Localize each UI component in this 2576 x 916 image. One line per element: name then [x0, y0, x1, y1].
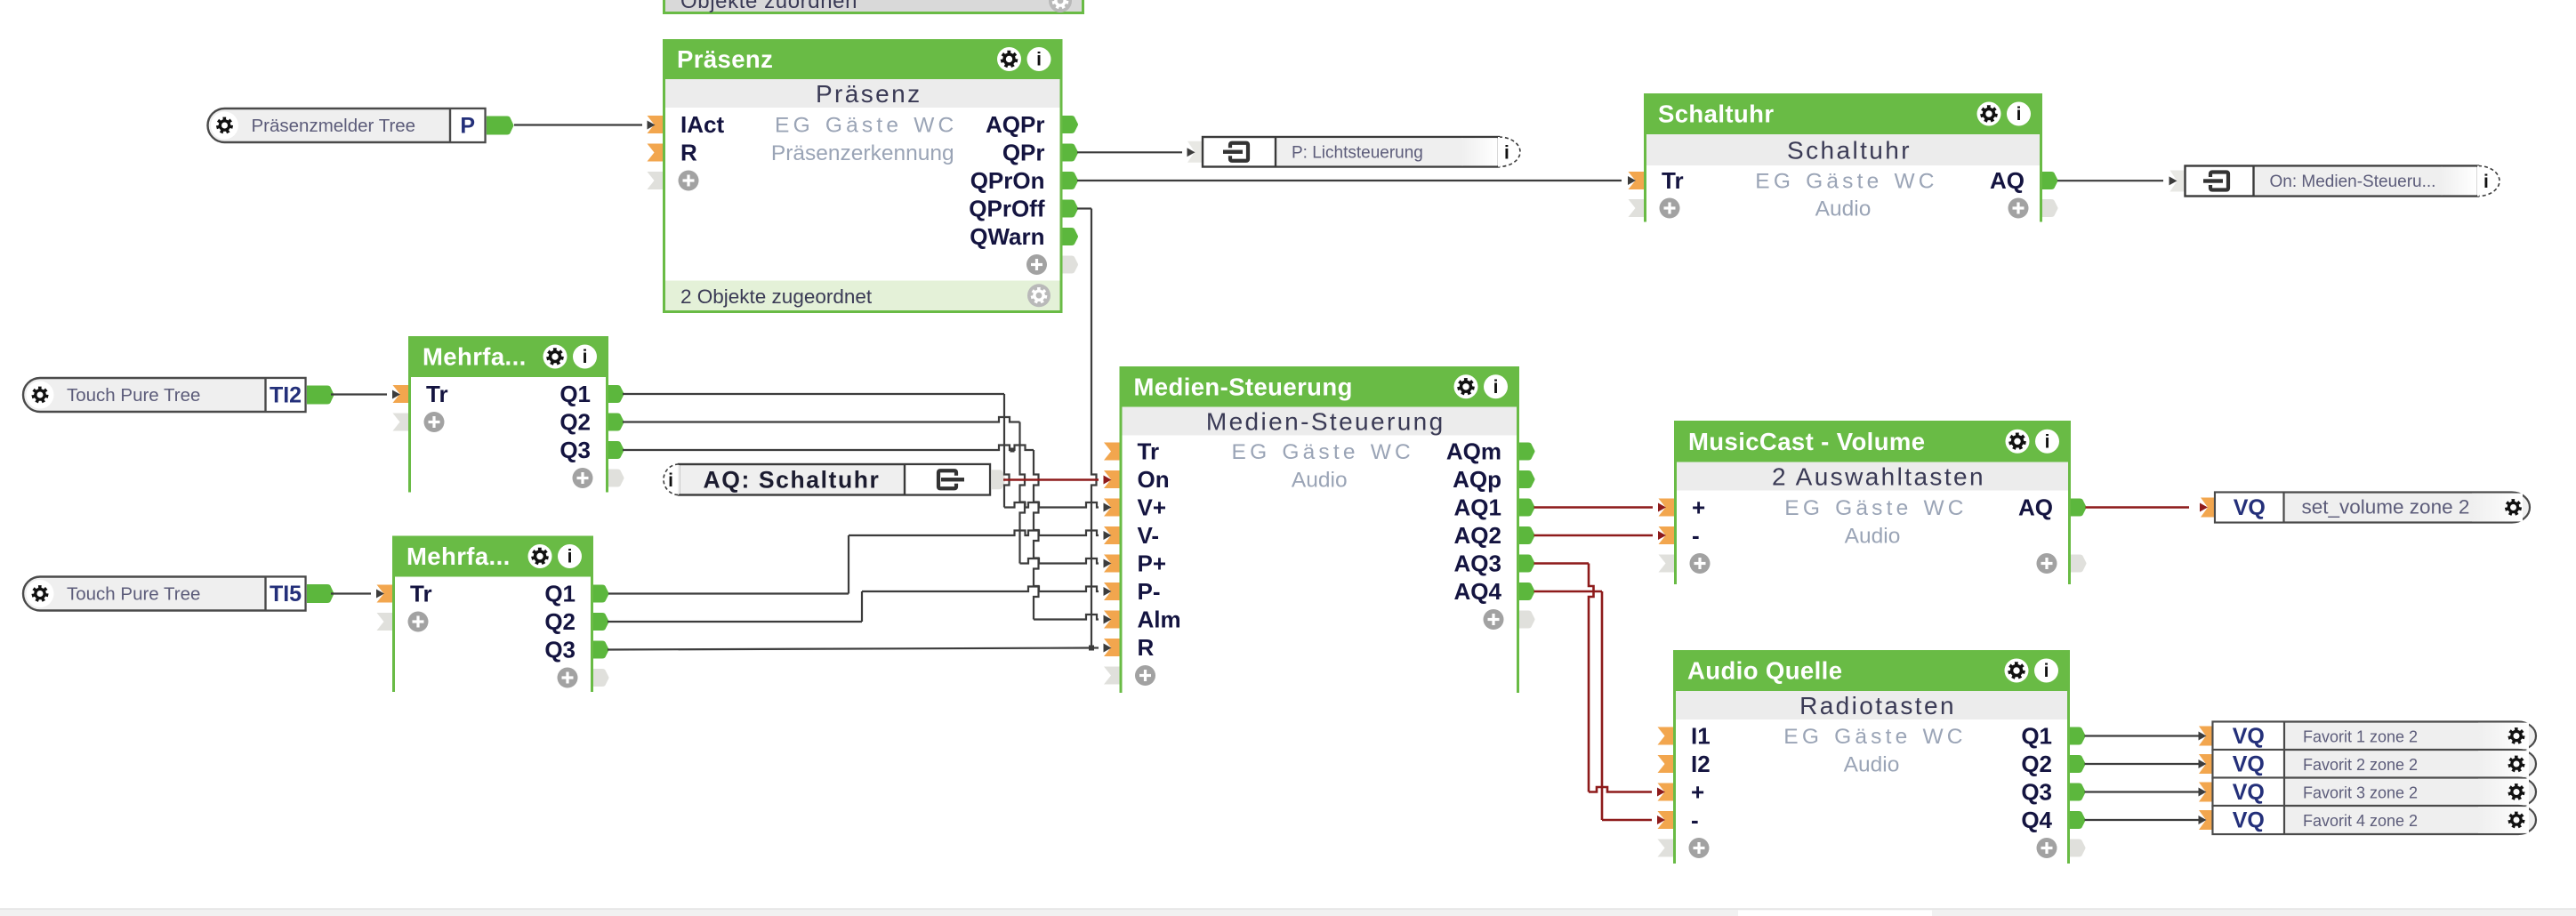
svg-text:Schaltuhr: Schaltuhr [1787, 137, 1912, 165]
svg-text:Präsenzerkennung: Präsenzerkennung [771, 141, 954, 165]
svg-text:Q2: Q2 [2021, 751, 2052, 777]
svg-text:VQ: VQ [2233, 724, 2265, 749]
wire Mehrfachklick1 Q2 to Medien-Steuerung P+ [623, 417, 1020, 422]
function block Präsenz: subtitle strip [665, 79, 1060, 108]
svg-text:i: i [568, 547, 573, 567]
Audio Quelle output Q3 [2070, 783, 2086, 801]
VQ output set_volume zone 2: input nub [2201, 498, 2217, 518]
svg-text:Medien-Steuerung: Medien-Steuerung [1206, 408, 1445, 436]
function block Audio Quelle: body [1676, 719, 2067, 864]
svg-text:Q1: Q1 [2021, 723, 2052, 750]
red wire MusicCast AQ to VQ set_volume [2086, 506, 2190, 509]
Schaltuhr output AQ [2042, 172, 2058, 189]
wire Mehrfachklick1 Q3 to Medien-Steuerung Alm [623, 446, 1034, 451]
svg-text:Tr: Tr [1138, 438, 1160, 465]
MusicCast add-input nub [1659, 555, 1675, 573]
svg-text:AQ3: AQ3 [1454, 550, 1501, 577]
svg-text:R: R [680, 140, 697, 166]
svg-text:EG Gäste WC: EG Gäste WC [1784, 496, 1967, 520]
svg-text:Q2: Q2 [544, 608, 576, 635]
svg-text:AQ4: AQ4 [1454, 578, 1502, 605]
wire Präsenzmelder P to Präsenz IAct [514, 124, 642, 125]
svg-text:On: Medien-Steueru...: On: Medien-Steueru... [2270, 173, 2436, 191]
Medien-Steuerung input Tr [1104, 443, 1120, 461]
Audio Quelle input + [1658, 783, 1674, 801]
wire Touch Pure TI5 to Mehrfachklick2 Tr [331, 592, 371, 594]
svg-text:V+: V+ [1138, 494, 1167, 521]
Mehrfachklick1 add-output nub [608, 470, 624, 487]
svg-text:VQ: VQ [2233, 780, 2265, 805]
Präsenz output QPr [1063, 144, 1079, 162]
memory flag On: Medien-Steuerung: body [2186, 166, 2479, 197]
svg-text:-: - [1691, 807, 1699, 833]
svg-text:Medien-Steuerung: Medien-Steuerung [1134, 373, 1353, 400]
red wire memory flag AQ: Schaltuhr to Medien-Steuerung On [1003, 478, 1099, 481]
wire Mehrfachklick2 Q1 to Medien-Steuerung V- [608, 592, 849, 594]
VQ output Favorit 1 zone 2: input nub [2199, 727, 2215, 746]
svg-text:VQ: VQ [2234, 495, 2266, 520]
function block Medien-Steuerung: header gear and info icons [1454, 374, 1478, 398]
svg-text:set_volume zone 2: set_volume zone 2 [2302, 496, 2470, 518]
function block Medien-Steuerung: frame [1120, 366, 1520, 693]
bottom scrollbar band [0, 909, 2576, 916]
svg-text:Radiotasten: Radiotasten [1799, 692, 1956, 719]
svg-text:Schaltuhr: Schaltuhr [1658, 100, 1774, 128]
svg-text:R: R [1138, 634, 1155, 661]
Audio Quelle input I2 [1658, 755, 1674, 773]
wire Audio Quelle Q3 to VQ Favorit 3 [2085, 791, 2201, 792]
tree input Präsenzmelder Tree P: gear icon [211, 112, 238, 140]
svg-text:Touch Pure Tree: Touch Pure Tree [67, 385, 200, 406]
function block Schaltuhr: body [1646, 165, 2040, 222]
Mehrfachklick1 output Q3 [608, 441, 624, 459]
Audio Quelle input I1 [1658, 727, 1674, 745]
svg-text:QPrOn: QPrOn [970, 167, 1045, 194]
svg-text:i: i [1493, 377, 1499, 398]
tree input Touch Pure Tree TI5: gear icon [27, 580, 54, 607]
function block Mehrfachklick 1: header gear and info icons [543, 345, 568, 369]
Audio Quelle add-input nub [1658, 840, 1674, 857]
VQ output Favorit 2 zone 2: body [2213, 750, 2537, 778]
memory flag P: Lichtsteuerung: memory icon [1230, 143, 1248, 161]
MusicCast input plus [1659, 499, 1675, 517]
svg-text:Tr: Tr [1662, 167, 1684, 194]
wire Audio Quelle Q2 to VQ Favorit 2 [2085, 763, 2201, 765]
memory flag On: Medien-Steuerung: input nub [2170, 171, 2186, 192]
VQ output Favorit 4 zone 2: input nub [2199, 810, 2215, 830]
VQ output Favorit 2 zone 2: gear icon [2508, 756, 2524, 773]
junction dot on Mehrfachklick1 Q3 wire [1010, 448, 1015, 453]
tree input Präsenzmelder Tree P: output nub [487, 117, 514, 135]
Audio Quelle input - [1658, 811, 1674, 829]
svg-text:Audio: Audio [1845, 525, 1901, 549]
svg-text:Tr: Tr [426, 381, 448, 407]
svg-text:Präsenz: Präsenz [677, 45, 773, 73]
VQ output Favorit 3 zone 2: body [2213, 778, 2537, 807]
Medien-Steuerung output AQ2 [1519, 526, 1535, 544]
Mehrfachklick2 add-input nub [377, 613, 393, 631]
svg-text:-: - [1692, 522, 1700, 549]
Medien-Steuerung input V- [1104, 526, 1120, 544]
svg-text:TI5: TI5 [270, 582, 302, 607]
function block MusicCast - Volume: body [1677, 491, 2068, 585]
red wire Medien-Steuerung AQ3 to Audio Quelle plus [1534, 562, 1590, 565]
svg-text:MusicCast - Volume: MusicCast - Volume [1688, 428, 1925, 455]
Präsenz input IAct [648, 116, 664, 133]
svg-text:I1: I1 [1691, 723, 1711, 750]
MusicCast input minus [1659, 526, 1675, 544]
Mehrfachklick2 output Q3 [593, 641, 609, 659]
svg-text:Q3: Q3 [2021, 779, 2052, 806]
function block Präsenz: frame [663, 39, 1063, 313]
tree input Touch Pure Tree TI2: gear icon [27, 382, 54, 409]
function block MusicCast - Volume: header gear and info icons [2006, 430, 2030, 454]
VQ output Favorit 3 zone 2: input nub [2199, 783, 2215, 802]
tree input Touch Pure Tree TI5: output nub [307, 584, 334, 603]
VQ output Favorit 2 zone 2: input nub [2199, 754, 2215, 774]
Schaltuhr input Tr [1629, 172, 1645, 189]
svg-text:VQ: VQ [2233, 808, 2265, 833]
svg-text:AQ2: AQ2 [1454, 522, 1501, 549]
wire Präsenz QPr to memory flag P: Lichtsteuerung [1077, 151, 1182, 153]
function block Mehrfachklick 2: body [395, 577, 591, 693]
Präsenz output QWarn [1063, 228, 1079, 245]
Mehrfachklick2 add-output nub [593, 669, 609, 687]
svg-text:Q3: Q3 [544, 637, 576, 663]
Mehrfachklick1 output Q2 [608, 414, 624, 431]
red wire Medien-Steuerung AQ1 to MusicCast plus [1534, 506, 1654, 509]
svg-text:i: i [2483, 172, 2489, 192]
svg-text:Mehrfa...: Mehrfa... [423, 343, 527, 371]
svg-text:Mehrfa...: Mehrfa... [407, 542, 511, 570]
svg-text:V-: V- [1138, 522, 1160, 549]
memory flag AQ: Schaltuhr: body [679, 464, 990, 495]
Mehrfachklick1 add-input nub [393, 414, 409, 431]
wire Mehrfachklick2 Q2 to Medien-Steuerung P- [608, 621, 862, 623]
Medien-Steuerung input P+ [1104, 555, 1120, 573]
function block Audio Quelle: header gear and info icons [2005, 659, 2029, 683]
Präsenz input R [648, 144, 664, 162]
Medien-Steuerung output AQ3 [1519, 555, 1535, 573]
Audio Quelle output Q2 [2070, 755, 2086, 773]
VQ output Favorit 1 zone 2: gear icon [2508, 727, 2524, 744]
svg-text:AQ1: AQ1 [1454, 494, 1501, 521]
memory flag AQ: Schaltuhr: output nub [991, 470, 1006, 489]
MusicCast add-output nub [2071, 555, 2087, 573]
svg-text:Objekte zuordnen: Objekte zuordnen [680, 0, 857, 13]
function block Medien-Steuerung: subtitle strip [1123, 407, 1517, 436]
function block Mehrfachklick 2: header gear and info icons [528, 544, 552, 568]
svg-text:Favorit 2 zone 2: Favorit 2 zone 2 [2303, 756, 2418, 774]
Schaltuhr add-input nub [1629, 199, 1645, 217]
function block Präsenz: header gear and info icons [997, 47, 1021, 71]
svg-text:EG Gäste WC: EG Gäste WC [1783, 725, 1966, 749]
memory flag On: Medien-Steuerung: memory icon [2210, 173, 2228, 190]
Medien-Steuerung input R [1104, 639, 1120, 656]
svg-text:Präsenzmelder Tree: Präsenzmelder Tree [252, 116, 416, 136]
tree input Touch Pure Tree TI5: body [23, 577, 306, 611]
Präsenz output AQPr [1063, 116, 1079, 133]
svg-text:+: + [1692, 494, 1705, 521]
Präsenz output QPrOff [1063, 200, 1079, 218]
function block Medien-Steuerung: body [1123, 436, 1517, 694]
wire Schaltuhr AQ to memory flag On: Medien-Steuerung [2057, 180, 2163, 181]
tree input Touch Pure Tree TI2: body [23, 378, 306, 412]
svg-text:TI2: TI2 [270, 383, 302, 408]
wire Touch Pure TI2 to Mehrfachklick1 Tr [331, 393, 387, 395]
svg-text:Q3: Q3 [559, 437, 591, 463]
VQ output set_volume zone 2: body [2215, 493, 2530, 523]
svg-text:Q4: Q4 [2021, 807, 2052, 833]
Mehrfachklick1 input Tr [393, 385, 409, 403]
svg-text:Audio: Audio [1844, 753, 1900, 777]
wire Audio Quelle Q4 to VQ Favorit 4 [2085, 819, 2201, 821]
svg-text:P+: P+ [1138, 550, 1167, 577]
svg-text:P-: P- [1138, 578, 1161, 605]
memory flag P: Lichtsteuerung: body [1203, 137, 1499, 167]
function block Audio Quelle: subtitle strip [1676, 691, 2067, 719]
svg-text:i: i [1504, 142, 1509, 163]
svg-text:AQ: Schaltuhr: AQ: Schaltuhr [704, 466, 881, 493]
function block MusicCast - Volume: subtitle strip [1677, 462, 2068, 491]
Schaltuhr add-output nub [2042, 199, 2058, 217]
Medien-Steuerung output AQ1 [1519, 499, 1535, 517]
svg-text:Favorit 3 zone 2: Favorit 3 zone 2 [2303, 784, 2418, 802]
function block Präsenz: body [665, 108, 1060, 281]
svg-text:EG Gäste WC: EG Gäste WC [775, 114, 957, 138]
VQ output set_volume zone 2: gear icon [2505, 499, 2522, 516]
memory flag AQ: Schaltuhr: memory icon [938, 470, 956, 488]
svg-text:Tr: Tr [410, 581, 432, 607]
svg-text:i: i [2044, 661, 2049, 681]
wire Mehrfachklick1 Q1 to Medien-Steuerung V+ [623, 393, 1004, 395]
svg-text:QPrOff: QPrOff [969, 196, 1045, 222]
svg-text:I2: I2 [1691, 751, 1711, 777]
svg-text:Favorit 1 zone 2: Favorit 1 zone 2 [2303, 728, 2418, 746]
Medien-Steuerung input P- [1104, 583, 1120, 600]
wire Audio Quelle Q1 to VQ Favorit 1 [2085, 735, 2201, 736]
svg-text:AQ: AQ [1990, 167, 2025, 194]
svg-text:2 Auswahltasten: 2 Auswahltasten [1772, 463, 1985, 491]
memory flag P: Lichtsteuerung: input nub [1187, 141, 1203, 163]
svg-text:QWarn: QWarn [970, 223, 1044, 250]
VQ output Favorit 4 zone 2: body [2213, 806, 2537, 834]
svg-text:Q2: Q2 [559, 409, 591, 436]
function block Schaltuhr: frame [1644, 93, 2042, 222]
wire Präsenz QPrOn to Schaltuhr Tr [1077, 180, 1622, 181]
function block Audio Quelle: frame [1673, 650, 2070, 864]
svg-text:i: i [1036, 50, 1042, 70]
function block Mehrfachklick 2: frame [392, 536, 593, 693]
svg-text:VQ: VQ [2233, 752, 2265, 777]
Medien-Steuerung input Alm [1104, 611, 1120, 629]
function block Präsenz: footer strip [665, 281, 1060, 311]
svg-text:AQPr: AQPr [986, 111, 1044, 138]
Medien-Steuerung add-input nub [1104, 667, 1120, 685]
svg-text:Favorit 4 zone 2: Favorit 4 zone 2 [2303, 812, 2418, 830]
Präsenz output QPrOn [1063, 172, 1079, 189]
svg-text:Präsenz: Präsenz [816, 80, 922, 108]
Mehrfachklick2 input Tr [377, 585, 393, 603]
function block Mehrfachklick 1: body [411, 377, 606, 493]
scrollbar thumb [1738, 911, 1932, 916]
MusicCast output AQ [2071, 499, 2087, 517]
Medien-Steuerung input On [1104, 470, 1120, 488]
svg-text:IAct: IAct [680, 111, 724, 138]
svg-text:Touch Pure Tree: Touch Pure Tree [67, 584, 200, 605]
svg-text:Q1: Q1 [544, 581, 576, 607]
svg-text:QPr: QPr [1002, 140, 1045, 166]
svg-text:i: i [583, 347, 588, 367]
svg-text:Audio Quelle: Audio Quelle [1687, 657, 1842, 685]
VQ output Favorit 1 zone 2: body [2213, 722, 2537, 751]
function block MusicCast - Volume: frame [1674, 421, 2071, 584]
VQ output Favorit 4 zone 2: gear icon [2508, 812, 2524, 829]
partial block top: Objekte zuordnen footer strip [663, 0, 1084, 14]
svg-text:EG Gäste WC: EG Gäste WC [1755, 170, 1937, 194]
Mehrfachklick1 output Q1 [608, 385, 624, 403]
Medien-Steuerung add-output nub [1519, 611, 1535, 629]
svg-text:P: Lichtsteuerung: P: Lichtsteuerung [1292, 143, 1423, 162]
svg-text:Audio: Audio [1292, 469, 1348, 493]
svg-text:Q1: Q1 [559, 381, 591, 407]
function block Mehrfachklick 1: frame [408, 336, 608, 493]
svg-text:EG Gäste WC: EG Gäste WC [1232, 440, 1414, 464]
function block Schaltuhr: subtitle strip [1646, 134, 2040, 165]
function block Schaltuhr: header gear and info icons [1977, 102, 2001, 126]
svg-text:+: + [1691, 779, 1704, 806]
Mehrfachklick2 output Q2 [593, 613, 609, 631]
svg-text:i: i [2045, 431, 2050, 452]
red wire Medien-Steuerung AQ2 to MusicCast minus [1534, 534, 1654, 537]
svg-text:2 Objekte zugeordnet: 2 Objekte zugeordnet [680, 285, 873, 308]
svg-text:AQm: AQm [1446, 438, 1501, 465]
Medien-Steuerung input V+ [1104, 499, 1120, 517]
svg-text:AQp: AQp [1453, 466, 1501, 493]
Audio Quelle output Q1 [2070, 727, 2086, 745]
Präsenz add-input nub [648, 172, 664, 189]
svg-text:AQ: AQ [2018, 494, 2053, 521]
svg-text:P: P [460, 114, 475, 139]
svg-text:i: i [668, 470, 673, 491]
junction dot QPrOff with Mehrfachklick2 Q3 [1089, 646, 1094, 651]
Mehrfachklick2 output Q1 [593, 585, 609, 603]
wire Mehrfachklick2 Q3 to junction at V4 [608, 648, 1091, 650]
VQ output Favorit 3 zone 2: gear icon [2508, 783, 2524, 800]
svg-text:On: On [1138, 466, 1170, 493]
svg-text:i: i [2017, 104, 2022, 125]
Medien-Steuerung output AQm [1519, 443, 1535, 461]
svg-text:Audio: Audio [1815, 197, 1872, 221]
red wire Medien-Steuerung AQ4 to Audio Quelle minus [1534, 591, 1603, 593]
Audio Quelle output Q4 [2070, 811, 2086, 829]
Audio Quelle add-output nub [2070, 840, 2086, 857]
tree input Präsenzmelder Tree P: body [208, 108, 486, 142]
svg-text:Alm: Alm [1138, 607, 1181, 633]
Medien-Steuerung output AQp [1519, 470, 1535, 488]
tree input Touch Pure Tree TI2: output nub [307, 386, 334, 405]
wire Präsenz QPrOff down to Medien-Steuerung R (vertical V4) [1077, 207, 1091, 209]
Medien-Steuerung output AQ4 [1519, 583, 1535, 600]
Präsenz add-output nub [1063, 256, 1079, 274]
